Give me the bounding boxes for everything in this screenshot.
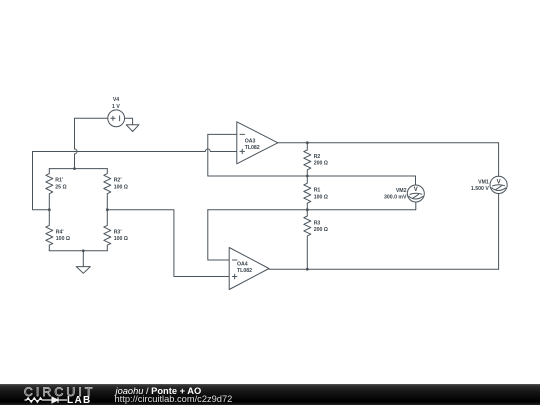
voltage source V4	[108, 110, 125, 127]
ground (bridge)	[76, 267, 90, 274]
node bridge top	[73, 167, 76, 170]
footer bar	[0, 384, 540, 405]
svg-text:1.500 V: 1.500 V	[471, 186, 489, 192]
svg-text:25 Ω: 25 Ω	[55, 184, 66, 190]
node OA4 out / R3 bottom	[306, 268, 309, 271]
resistor R4'	[46, 210, 53, 251]
wire bridge bottom	[49, 250, 107, 252]
wire main node horizontal to OA3 + (hops over feedback drop)	[33, 149, 237, 152]
svg-text:100 Ω: 100 Ω	[114, 184, 128, 190]
wire VM1 top drop	[498, 143, 500, 177]
svg-text:R1': R1'	[55, 178, 63, 184]
svg-text:200 Ω: 200 Ω	[314, 161, 328, 167]
svg-text:VM2: VM2	[396, 188, 407, 194]
node net A / R2-R1	[306, 175, 309, 178]
wire ground stub	[82, 251, 84, 267]
wire V4 right terminal	[125, 118, 133, 125]
resistor R3	[304, 210, 311, 270]
wire VM2 top	[415, 176, 417, 185]
svg-text:R1: R1	[314, 188, 321, 194]
resistor R2	[304, 143, 311, 176]
wire V4 left terminal	[75, 117, 108, 119]
svg-text:300.0 mV: 300.0 mV	[384, 195, 407, 201]
node net B / R1-R3	[306, 208, 309, 211]
wire net B horizontal	[208, 209, 416, 211]
wire OA3 output	[278, 142, 499, 144]
wire left node down	[33, 152, 50, 210]
svg-text:1 V: 1 V	[112, 104, 120, 110]
node OA3 out / R2 top	[306, 141, 309, 144]
resistor R1'	[46, 169, 53, 210]
wire OA3 - input	[208, 133, 237, 135]
ground (V4)	[126, 125, 139, 132]
svg-text:100 Ω: 100 Ω	[114, 236, 128, 242]
wire net A horizontal	[208, 175, 416, 177]
wire VM2 bottom	[415, 202, 417, 210]
wire bridge mid to OA4 +	[107, 210, 229, 277]
op-amp OA4	[229, 248, 269, 290]
CircuitLab logo	[0, 384, 100, 405]
svg-text:100 Ω: 100 Ω	[56, 236, 70, 242]
resistor R2'	[104, 169, 111, 210]
svg-text:TL082: TL082	[237, 268, 252, 274]
svg-text:200 Ω: 200 Ω	[314, 227, 328, 233]
svg-text:100 Ω: 100 Ω	[314, 194, 328, 200]
svg-text:R3': R3'	[114, 229, 122, 235]
svg-text:TL082: TL082	[245, 145, 260, 151]
svg-text:V4: V4	[113, 97, 119, 103]
svg-text:R4': R4'	[56, 229, 64, 235]
svg-text:VM1: VM1	[478, 180, 489, 186]
svg-text:V: V	[497, 179, 501, 185]
wire bridge top	[49, 168, 107, 170]
node bridge bottom	[82, 249, 85, 252]
logo resistor-diode glyph	[25, 397, 68, 403]
op-amp OA3	[237, 122, 278, 164]
wire V4 drop to bridge top (hops over node wire)	[75, 118, 78, 168]
svg-text:R3: R3	[314, 220, 321, 226]
footer credit line	[116, 387, 202, 396]
wire VM1 bottom drop	[498, 194, 500, 270]
wire OA4 - drop	[208, 210, 229, 260]
svg-text:R2': R2'	[114, 178, 122, 184]
svg-text:LAB: LAB	[67, 395, 92, 405]
resistor R3'	[104, 210, 111, 251]
wire OA4 output	[269, 268, 499, 270]
node bridge left mid	[48, 208, 51, 211]
svg-text:V: V	[414, 187, 418, 193]
svg-text:OA3: OA3	[245, 139, 256, 145]
node bridge right mid	[106, 208, 109, 211]
svg-text:R2: R2	[314, 154, 321, 160]
voltmeter VM1	[490, 176, 507, 193]
footer url line	[115, 395, 233, 404]
resistor R1	[304, 176, 311, 210]
svg-text:OA4: OA4	[237, 262, 248, 268]
voltmeter VM2	[407, 185, 424, 202]
wire OA3 feedback drop	[207, 134, 209, 176]
